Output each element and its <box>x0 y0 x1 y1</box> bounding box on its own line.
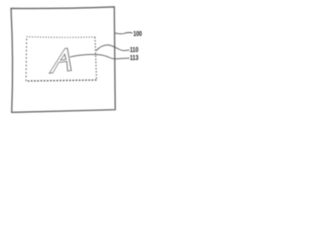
svg-text:110: 110 <box>130 46 139 54</box>
svg-text:100: 100 <box>133 30 142 38</box>
svg-text:113: 113 <box>130 54 139 62</box>
